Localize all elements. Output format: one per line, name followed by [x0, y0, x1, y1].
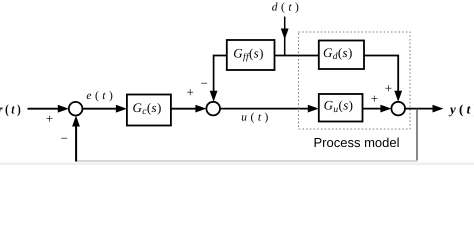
wire feedback up to summer 1 [75, 126, 77, 162]
faint bottom strip [0, 163, 474, 165]
svg-text:e ( t ): e ( t ) [86, 90, 113, 102]
arrowhead d(t) [281, 29, 289, 40]
svg-text:Gd(s): Gd(s) [323, 45, 353, 62]
block Gff(s) [227, 40, 275, 70]
svg-text:Gff(s): Gff(s) [233, 45, 264, 62]
svg-text:Gc(s): Gc(s) [133, 100, 162, 117]
arrowhead output [433, 105, 444, 113]
wire Gff output to summer 2 [214, 56, 227, 93]
svg-text:+: + [385, 80, 392, 95]
wire Gu to summer 3 [363, 108, 384, 110]
svg-text:+: + [371, 91, 378, 106]
arrowhead into Gc [116, 105, 127, 113]
svg-text:+: + [187, 85, 194, 100]
wire summer 3 to output [405, 108, 435, 110]
wire summer 2 to Gu [220, 108, 310, 110]
wire Gc to summer 2 [171, 108, 197, 110]
svg-text:−: − [61, 131, 68, 146]
summing junction 2 [206, 102, 220, 116]
svg-text:y ( t ): y ( t ) [448, 102, 474, 117]
svg-text:u ( t ): u ( t ) [241, 112, 268, 124]
svg-text:Process model: Process model [314, 135, 400, 150]
summing junction 3 [391, 102, 405, 116]
summing junction 1 [69, 102, 83, 116]
wire feedback bottom [76, 160, 418, 162]
arrowhead into Gu [308, 105, 319, 113]
block Gd(s) [319, 41, 364, 70]
arrowhead up into summer 1 [72, 116, 80, 127]
wire Gd to summer 3 top [364, 56, 398, 93]
dashed box process model [299, 32, 411, 129]
arrowhead into summer 2 [195, 105, 206, 113]
block Gc(s) [127, 95, 171, 126]
svg-text:d ( t ): d ( t ) [272, 1, 299, 13]
wire Gff to Gd (d injection line) [275, 55, 319, 57]
wire feedback tap down [416, 109, 418, 162]
svg-text:r ( t ): r ( t ) [0, 102, 21, 117]
svg-text:+: + [46, 111, 53, 126]
arrowhead into summer 1 [58, 105, 69, 113]
arrowhead down into summer 3 [394, 91, 402, 102]
wire input r(t) to summer 1 [28, 108, 60, 110]
block Gu(s) [319, 94, 363, 122]
arrowhead into summer 3 [380, 105, 391, 113]
wire d(t) down to process line [284, 17, 286, 56]
wire summer 1 to Gc [82, 108, 117, 110]
svg-text:−: − [201, 76, 208, 91]
svg-text:Gu(s): Gu(s) [324, 98, 354, 115]
arrowhead down into summer 2 [210, 91, 218, 102]
